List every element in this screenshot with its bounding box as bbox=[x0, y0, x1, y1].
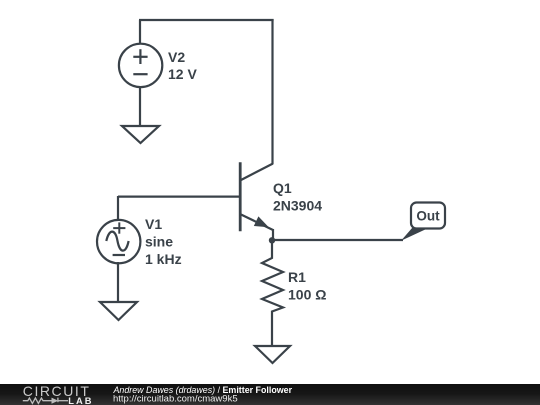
voltage source V1 (sine) bbox=[97, 220, 140, 263]
svg-text:1 kHz: 1 kHz bbox=[145, 251, 182, 267]
wire base horizontal bbox=[118, 196, 239, 198]
svg-text:Out: Out bbox=[416, 209, 440, 224]
svg-text:http://circuitlab.com/cmaw9k5: http://circuitlab.com/cmaw9k5 bbox=[113, 393, 238, 404]
transistor Q1 bbox=[240, 162, 273, 241]
net flag Out box bbox=[411, 203, 445, 229]
svg-text:12 V: 12 V bbox=[168, 66, 197, 82]
svg-text:V2: V2 bbox=[168, 49, 185, 65]
wire V1 to ground bbox=[117, 262, 119, 302]
svg-text:R1: R1 bbox=[288, 269, 306, 285]
CircuitLab logo resistor-diode squiggle bbox=[23, 398, 68, 404]
net flag Out tail bbox=[401, 228, 430, 241]
svg-text:2N3904: 2N3904 bbox=[273, 198, 322, 214]
ground below R1 bbox=[255, 346, 290, 363]
voltage source V2 bbox=[119, 44, 162, 87]
ground below V2 bbox=[122, 126, 159, 143]
svg-text:100 Ω: 100 Ω bbox=[288, 287, 326, 303]
wire collector vertical bbox=[271, 19, 273, 164]
wire V2 top vertical bbox=[139, 20, 141, 44]
svg-text:Q1: Q1 bbox=[273, 180, 292, 196]
ground below V1 bbox=[100, 302, 137, 320]
wire V1 top vertical bbox=[117, 196, 119, 221]
wire top horizontal rail bbox=[139, 19, 274, 21]
svg-text:sine: sine bbox=[145, 234, 173, 250]
footer bar bbox=[0, 384, 540, 405]
wire V2 to ground bbox=[139, 86, 141, 126]
node emitter junction bbox=[269, 237, 275, 243]
svg-text:LAB: LAB bbox=[68, 396, 93, 405]
resistor R1 bbox=[262, 240, 283, 346]
wire emitter to Out bbox=[272, 239, 403, 241]
svg-text:V1: V1 bbox=[145, 216, 162, 232]
